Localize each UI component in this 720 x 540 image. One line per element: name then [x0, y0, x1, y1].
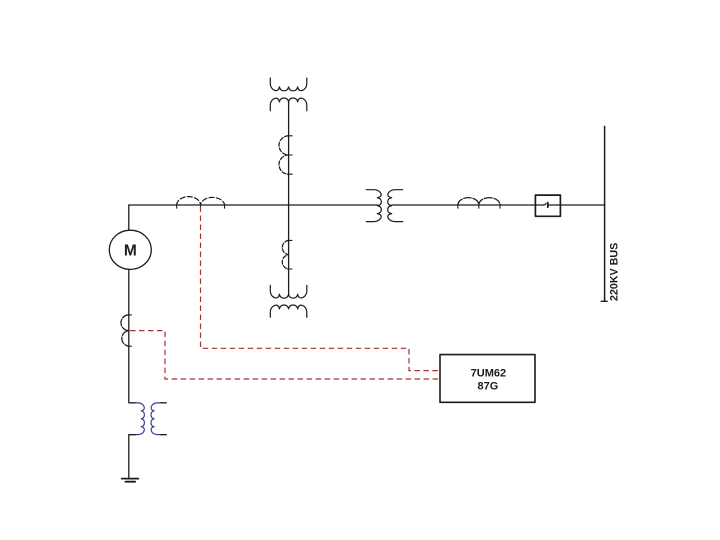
ground electrode bars [122, 479, 139, 482]
circuit breaker CB1 contact bar [547, 203, 549, 208]
CT1 arcs on main line (dashed, to 87G relay) [177, 197, 225, 205]
NGT right winding (blue) [151, 403, 166, 435]
wire motor to NGT [128, 269, 130, 403]
wire main horizontal bus-feeder left segment [129, 204, 377, 206]
wire vertical drop to motor [128, 205, 130, 230]
generator G1 top w-winding [270, 285, 307, 298]
wire CT1 secondary to relay (red dashed) [201, 207, 440, 371]
circuit breaker CB1 contact hook [543, 204, 546, 206]
generator G1 bottom m-winding [270, 305, 307, 317]
CT4 end ticks [287, 240, 292, 269]
CT4 arcs lower center (dashed) [282, 240, 288, 269]
wire center vertical generator lead [288, 102, 290, 294]
NGT lead stubs (black overlay) [129, 403, 166, 435]
motor M1 circle [109, 230, 151, 269]
CT3 end ticks [287, 136, 292, 174]
svg-text:220KV BUS: 220KV BUS [609, 243, 621, 301]
220kV bus bottom foot [601, 300, 607, 302]
wire CT2 secondary to relay (red dashed) [130, 331, 439, 379]
circuit breaker CB1 box [535, 195, 560, 216]
svg-text:7UM62: 7UM62 [471, 368, 506, 380]
wire NGT bottom to ground [128, 435, 130, 479]
unit transformer T1 top w-winding [270, 78, 307, 91]
CT5 arcs before breaker [458, 198, 500, 205]
svg-text:87G: 87G [478, 380, 499, 392]
wire main horizontal segment transformer to breaker [392, 204, 544, 206]
CT1 end ticks [177, 204, 225, 208]
wire main horizontal segment breaker to 220kV bus [549, 204, 605, 206]
CT2 end ticks [128, 315, 132, 346]
CT5 end ticks [458, 204, 500, 208]
CT3 arcs upper center (dashed) [279, 136, 289, 174]
220kV bus bar [604, 126, 606, 301]
relay 7UM62 87G box [440, 355, 535, 403]
svg-text:M: M [124, 242, 137, 259]
CT2 arcs on motor neutral branch [121, 315, 129, 346]
step-up transformer T2 left winding [366, 190, 381, 222]
NGT neutral grounding transformer left winding (blue) [129, 403, 166, 435]
step-up transformer T2 right winding [388, 190, 403, 222]
unit transformer T1 bottom m-winding [270, 98, 307, 111]
